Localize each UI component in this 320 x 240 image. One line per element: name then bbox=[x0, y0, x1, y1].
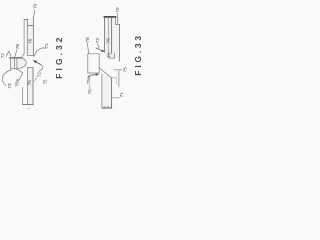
svg-text:72: 72 bbox=[95, 38, 101, 44]
svg-text:FIG.32: FIG.32 bbox=[54, 34, 64, 78]
dome arc cap bbox=[17, 58, 27, 69]
wall V3 (right wall) bbox=[32, 17, 34, 56]
ejection arrow (right figure, points lower-right) bbox=[96, 48, 105, 52]
wall C (short right) bbox=[115, 17, 117, 24]
svg-text:78: 78 bbox=[15, 44, 21, 50]
svg-text:71: 71 bbox=[119, 92, 124, 98]
lower rect right wall (right figure) bbox=[111, 78, 113, 108]
lower rect left wall (right figure) bbox=[101, 74, 103, 108]
svg-text:70: 70 bbox=[115, 7, 121, 13]
left column tint bbox=[24, 20, 33, 56]
leader to label 75 (right figure) bbox=[114, 69, 122, 71]
dome inner wall b bbox=[16, 58, 18, 69]
dome left edge bbox=[10, 58, 12, 69]
hook under label 72 bbox=[34, 78, 37, 81]
square chamber top bbox=[88, 53, 99, 55]
soft interior tints bbox=[11, 17, 120, 108]
diagonal from chamber to lower rect bbox=[99, 68, 111, 78]
right lower rect tint bbox=[102, 76, 112, 108]
faint mark below base bbox=[28, 108, 30, 110]
dome top edge bbox=[10, 57, 22, 59]
square chamber bottom bbox=[88, 72, 99, 74]
dome inner wall a bbox=[13, 58, 15, 69]
lower rect bottom edge (right figure) bbox=[102, 107, 112, 109]
svg-text:71: 71 bbox=[44, 43, 49, 49]
leader down from 75a bbox=[89, 85, 91, 90]
nozzle top cap bbox=[24, 19, 28, 21]
svg-text:76: 76 bbox=[106, 38, 112, 44]
dome bottom edge bbox=[11, 68, 17, 70]
long leader arc to label 73 bbox=[2, 70, 11, 85]
step leader at lower rect top (right figure) bbox=[112, 77, 117, 79]
ejection arrow (left figure, points left) bbox=[33, 60, 40, 64]
svg-text:75: 75 bbox=[27, 80, 33, 86]
chamber bottom edge bbox=[28, 54, 34, 56]
leader from 78 to square chamber bbox=[87, 43, 88, 53]
inner tick b bbox=[108, 105, 109, 107]
svg-text:76: 76 bbox=[27, 38, 33, 44]
leader from label 70 to wall bbox=[34, 10, 35, 17]
base bottom edge bbox=[23, 104, 33, 106]
short drop from step bbox=[116, 78, 118, 85]
diagonal from dome bottom corner bbox=[17, 69, 23, 73]
long arc leader to label 71 (left figure) bbox=[34, 48, 46, 57]
arrow 2 (points right, below chamber) bbox=[90, 74, 99, 76]
svg-text:75a: 75a bbox=[86, 76, 91, 84]
leader arcs (lambda) bbox=[6, 51, 8, 56]
right column tint bbox=[104, 17, 119, 58]
bottom chamber edge bbox=[109, 57, 115, 59]
square chamber left bbox=[87, 54, 89, 73]
wall V1 (left wall of upper chimney) bbox=[22, 20, 25, 58]
wall B (middle) bbox=[111, 17, 113, 53]
leader from 72 to arrow bbox=[97, 44, 99, 48]
svg-text:73: 73 bbox=[7, 83, 13, 89]
svg-text:73: 73 bbox=[106, 52, 111, 57]
base outer wall bbox=[22, 88, 24, 105]
lower rect left wall bbox=[26, 68, 28, 105]
leader from 75a up to dome bbox=[19, 73, 23, 80]
outer wall segment bbox=[118, 70, 120, 87]
leader from 78 down to dome bbox=[15, 50, 17, 58]
square chamber right bbox=[98, 54, 100, 73]
inner tick a bbox=[104, 105, 105, 107]
svg-text:75: 75 bbox=[87, 89, 92, 95]
svg-text:75a: 75a bbox=[14, 79, 19, 87]
leader from label 70 bbox=[116, 13, 118, 24]
ledge bbox=[28, 25, 34, 27]
ledge (right step) bbox=[116, 23, 120, 25]
wall D (outer right) bbox=[119, 24, 121, 61]
svg-text:75: 75 bbox=[122, 67, 128, 73]
svg-text:75: 75 bbox=[43, 79, 48, 84]
svg-text:72: 72 bbox=[0, 53, 5, 58]
bottom chamber wall a bbox=[108, 53, 110, 59]
lower rect top edge bbox=[27, 67, 33, 69]
svg-text:70: 70 bbox=[33, 3, 39, 9]
lower rect right wall bbox=[32, 68, 34, 105]
wall V2 (second wall) bbox=[27, 20, 29, 56]
wall A (left) bbox=[103, 17, 105, 52]
top plate edge (thick) bbox=[104, 16, 116, 18]
bottom chamber wall b bbox=[114, 53, 116, 58]
svg-text:78: 78 bbox=[85, 37, 91, 43]
S-curve leader from arrow to label 72 bbox=[39, 64, 43, 71]
inner laminate wall bbox=[107, 17, 109, 52]
svg-text:FIG.33: FIG.33 bbox=[133, 33, 143, 75]
svg-text:72: 72 bbox=[36, 72, 41, 78]
left lower rect tint bbox=[27, 68, 33, 105]
left dome tint bbox=[11, 58, 27, 69]
leader to label 71 (right figure) bbox=[112, 97, 119, 99]
label 75a (right figure) with hook leader bbox=[88, 75, 90, 77]
